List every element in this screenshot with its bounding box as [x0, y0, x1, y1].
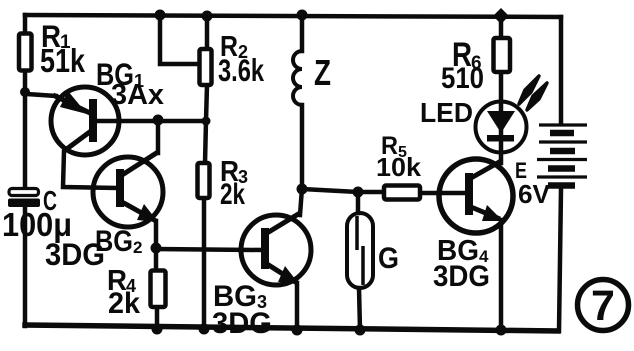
svg-text:G: G: [378, 242, 399, 275]
svg-text:3.6k: 3.6k: [218, 52, 264, 88]
svg-text:51k: 51k: [40, 42, 86, 79]
svg-text:2k: 2k: [108, 287, 140, 320]
svg-text:2: 2: [133, 238, 142, 257]
svg-text:6V: 6V: [518, 179, 551, 209]
svg-text:10k: 10k: [376, 152, 422, 182]
svg-text:Z: Z: [314, 53, 331, 93]
svg-text:2k: 2k: [220, 178, 245, 211]
svg-text:LED: LED: [420, 97, 473, 128]
svg-text:3DG: 3DG: [45, 236, 105, 272]
svg-text:3DG: 3DG: [212, 307, 272, 340]
svg-text:3DG: 3DG: [433, 260, 490, 293]
svg-text:510: 510: [441, 62, 484, 95]
svg-text:7: 7: [591, 282, 615, 330]
svg-text:3Ax: 3Ax: [111, 79, 164, 111]
